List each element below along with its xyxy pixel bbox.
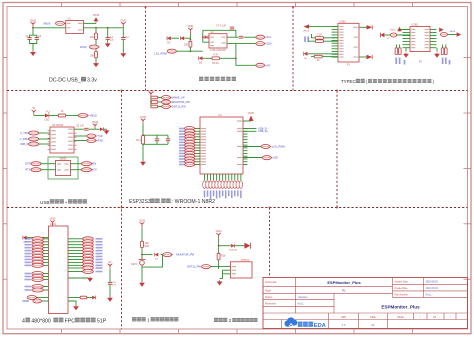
svg-text:VD33: VD33	[93, 14, 100, 17]
svg-text:EDA: EDA	[314, 323, 327, 329]
svg-text:ESP32S3: ESP32S3	[129, 199, 151, 205]
svg-text:Part Number: Part Number	[395, 293, 409, 296]
power flag right USB2	[439, 28, 443, 32]
lcd right pin group 1	[68, 237, 103, 268]
svg-text:P1: P1	[342, 289, 346, 293]
lcd right pin group 4	[68, 296, 96, 311]
svg-text:U_TXD: U_TXD	[20, 131, 29, 135]
wire pin stubs USB2	[403, 29, 437, 47]
svg-text:1745-VL53L0X: 1745-VL53L0X	[210, 49, 226, 52]
section label TYPEC	[341, 79, 435, 84]
node U_RXD	[20, 137, 50, 141]
resistor R1	[90, 28, 98, 40]
diode D8	[23, 236, 49, 244]
svg-text:DHT11_PW: DHT11_PW	[187, 265, 201, 269]
svg-text:51P: 51P	[97, 319, 107, 325]
svg-text:C7 0.1uF: C7 0.1uF	[216, 25, 226, 28]
svg-text:LCD1: LCD1	[50, 223, 57, 226]
svg-text:PAGE: PAGE	[397, 316, 404, 319]
wire VBUS out top	[359, 25, 372, 29]
svg-text:2022-08-15: 2022-08-15	[426, 280, 439, 283]
diode D7	[95, 127, 109, 134]
svg-text:RXD: RXD	[98, 138, 104, 142]
svg-text:U_RXD: U_RXD	[20, 137, 29, 141]
section label DC-DC	[49, 77, 97, 84]
svg-text:NULL: NULL	[426, 293, 433, 296]
section label ESP32	[129, 199, 215, 206]
lcd left pin group 2	[25, 272, 49, 282]
svg-text:VD33: VD33	[148, 90, 155, 93]
title block frame	[263, 278, 468, 329]
node LCD_PWM	[243, 144, 285, 148]
svg-text:5V: 5V	[109, 261, 112, 264]
svg-text:Page: Page	[265, 289, 271, 292]
svg-text:RTS: RTS	[25, 168, 30, 172]
svg-text:ESPMonitor_Plus: ESPMonitor_Plus	[381, 304, 420, 309]
esp32 left pin flags	[179, 127, 200, 167]
wire dht pins	[219, 267, 231, 279]
node LED	[243, 156, 278, 160]
section label dht	[214, 318, 258, 323]
resistor R6 CC1	[312, 33, 339, 39]
svg-text:VD33: VD33	[80, 45, 87, 49]
svg-text:VBUS: VBUS	[43, 22, 51, 26]
usb connector USB1	[338, 20, 359, 66]
wire SDA	[227, 43, 256, 45]
section divider vertical top row 2	[292, 6, 294, 90]
svg-text:Schematic: Schematic	[265, 281, 277, 284]
ground	[434, 48, 440, 58]
svg-text:VBUS: VBUS	[303, 31, 309, 33]
svg-text:EN: EN	[93, 162, 97, 166]
esp32 bottom pin labels	[204, 190, 242, 199]
resistor R9 R10 pulldowns left	[395, 45, 401, 55]
svg-text:SIZE: SIZE	[370, 316, 376, 319]
node USB_D	[20, 142, 50, 146]
resistor R13	[49, 110, 78, 117]
eda logo	[285, 317, 327, 328]
svg-text:DHT11_PW: DHT11_PW	[172, 104, 186, 108]
ground	[105, 42, 111, 47]
svg-text:: WROOM-1 N8R2: : WROOM-1 N8R2	[172, 199, 215, 205]
svg-text:2022-08-09: 2022-08-09	[426, 287, 439, 290]
resistor R7 CC2	[309, 40, 339, 43]
node RTS	[25, 168, 55, 172]
resistor R5	[203, 54, 220, 65]
node SDA	[256, 42, 272, 46]
backlight power column	[107, 261, 117, 302]
svg-text:5V: 5V	[32, 107, 35, 110]
node VD33 feedback	[80, 40, 100, 50]
resistor R8	[311, 55, 338, 62]
node U_TXD	[20, 131, 50, 135]
svg-text:ESPMonitor_Plus: ESPMonitor_Plus	[327, 280, 361, 285]
wire	[142, 124, 168, 136]
section divider vertical left column	[121, 90, 123, 330]
svg-text:10K: 10K	[184, 43, 189, 46]
svg-text:480*800: 480*800	[31, 319, 50, 325]
node VBUS right	[441, 31, 462, 37]
wire	[32, 27, 66, 29]
ground	[140, 161, 146, 166]
wire	[84, 22, 97, 24]
lcd right pin group 2	[68, 266, 103, 274]
svg-text:TYPEC: TYPEC	[341, 79, 356, 84]
power flag esp vcc right	[243, 112, 255, 121]
node vbus2 left	[384, 30, 410, 37]
svg-text:xuliaobee: xuliaobee	[298, 296, 309, 299]
resistor R15	[141, 241, 150, 248]
svg-text:USB: USB	[40, 200, 49, 205]
ground	[139, 282, 145, 287]
svg-text:VBUS: VBUS	[30, 19, 37, 22]
wire vcc filter	[74, 124, 95, 130]
svg-text:VD33: VD33	[248, 112, 255, 115]
power flag 5V led	[32, 107, 37, 115]
svg-text:C5 1uF: C5 1uF	[76, 124, 84, 127]
power flag LCD	[50, 218, 57, 226]
power flag dht	[216, 230, 223, 238]
svg-text:USB_D+: USB_D+	[258, 129, 269, 133]
wire INT	[219, 44, 256, 66]
node INT	[256, 63, 271, 67]
svg-text:1.0: 1.0	[342, 323, 346, 327]
svg-text:FPC: FPC	[65, 319, 76, 325]
svg-text:3.3v: 3.3v	[87, 78, 97, 84]
svg-text:INT: INT	[266, 63, 271, 67]
power up arrow USB2	[397, 27, 410, 31]
section divider vertical mid row right	[336, 90, 338, 209]
svg-text:VER: VER	[341, 316, 346, 319]
svg-text:LED: LED	[45, 119, 50, 122]
svg-text:DC-DC USB_5v: DC-DC USB_5v	[49, 78, 87, 84]
svg-text:USB1: USB1	[340, 20, 347, 23]
section label laser	[199, 77, 236, 81]
diode D4	[203, 35, 208, 39]
node SCL	[256, 35, 272, 39]
lcd left pin group 4	[23, 296, 49, 304]
lcd connector LCD1	[47, 223, 70, 314]
svg-text:+: +	[65, 200, 68, 205]
wire SCL	[227, 36, 256, 38]
svg-text:VD33: VD33	[50, 218, 57, 221]
power flag VBUS left	[303, 24, 309, 32]
net labels right USB2	[442, 58, 451, 65]
net labels left USB2	[395, 58, 405, 65]
diode D2	[167, 36, 171, 44]
ground	[30, 51, 36, 56]
svg-text:Drawn: Drawn	[265, 296, 273, 299]
wire pullup rail	[148, 90, 155, 106]
pullup row 1 node WAKE_UP	[151, 95, 185, 99]
power flag VBUS input	[30, 19, 37, 27]
svg-text:VD33: VD33	[120, 19, 127, 22]
power flag left USB2	[381, 33, 390, 40]
svg-text:SCL: SCL	[266, 35, 272, 39]
node VBUS	[78, 113, 97, 117]
svg-text:1K: 1K	[61, 110, 64, 113]
svg-text:LED: LED	[273, 156, 278, 160]
diode D9	[155, 253, 159, 261]
svg-text:5.1K: 5.1K	[317, 33, 322, 36]
node USB_D-	[243, 126, 268, 130]
capacitor C1	[25, 28, 33, 44]
wire	[84, 27, 124, 30]
svg-text:MONITOR_PW: MONITOR_PW	[176, 253, 194, 257]
esp32 module U4	[198, 114, 248, 176]
svg-text:1uF: 1uF	[112, 285, 116, 287]
ground	[120, 52, 126, 57]
node MONITOR_PW	[163, 253, 195, 257]
dht11 sensor U5	[228, 259, 252, 278]
section divider vertical bottom row	[269, 207, 271, 278]
wire	[141, 228, 143, 241]
capacitor C7 label	[216, 25, 234, 29]
svg-text:MONITOR_PW: MONITOR_PW	[172, 100, 190, 104]
wire	[309, 26, 338, 28]
section divider vertical top row 1	[145, 6, 147, 90]
svg-text:1N4148: 1N4148	[229, 249, 237, 251]
svg-text:VBUS: VBUS	[449, 31, 455, 33]
node CC labels	[304, 37, 309, 43]
capacitor C9	[155, 135, 159, 144]
wire key loop	[142, 255, 163, 268]
svg-text:USB2: USB2	[412, 24, 419, 27]
svg-text:TXD: TXD	[98, 134, 103, 138]
node VBUS	[43, 21, 66, 25]
capacitor C2	[33, 35, 42, 51]
resistor R4	[184, 41, 192, 52]
node LD1_PWM	[154, 49, 203, 55]
wire	[218, 239, 220, 254]
power flag laser VD33	[187, 25, 194, 33]
svg-text:Update Date: Update Date	[395, 280, 409, 283]
svg-text:4: 4	[22, 319, 25, 325]
svg-text:S8050: S8050	[60, 158, 68, 161]
power flag U3	[92, 121, 99, 129]
wire pin stubs USB1	[332, 27, 339, 57]
section label FPC	[22, 318, 107, 325]
wire	[190, 34, 192, 41]
svg-text:KEY1: KEY1	[131, 263, 138, 266]
node IO0	[71, 168, 98, 172]
power flag VD33 esp	[140, 116, 147, 124]
title block fields	[265, 280, 451, 327]
ground	[93, 58, 99, 67]
capacitor C3	[106, 28, 115, 42]
node USB_D+	[243, 129, 269, 133]
capacitor C4	[121, 28, 129, 52]
power flag key	[139, 220, 146, 228]
svg-text:A3: A3	[371, 323, 375, 327]
pullup row 3 node DHT11	[151, 104, 186, 108]
svg-text:VD33: VD33	[140, 116, 147, 119]
svg-text:VBUS: VBUS	[390, 30, 396, 32]
push button KEY1	[131, 258, 145, 282]
svg-text:OF: OF	[433, 316, 437, 319]
resistor R2	[90, 49, 98, 58]
node EN	[71, 162, 97, 166]
svg-text:10K: 10K	[90, 36, 95, 39]
laser module U2	[209, 31, 227, 52]
power flag VD33	[120, 19, 127, 27]
svg-text:IO0: IO0	[93, 168, 98, 172]
svg-text:R16: R16	[221, 254, 226, 257]
svg-text:R5 1K: R5 1K	[212, 62, 219, 65]
resistor R11 R12 pulldowns right	[441, 45, 447, 55]
wire	[141, 248, 143, 260]
wire laser loop	[202, 30, 236, 42]
diode D11	[244, 243, 250, 249]
svg-text:Create Date: Create Date	[395, 287, 409, 290]
diode D6	[304, 52, 338, 60]
diode D10	[219, 244, 245, 251]
svg-text:R14: R14	[136, 139, 141, 142]
esp32 bottom pins	[203, 174, 243, 188]
svg-text:10K: 10K	[90, 54, 95, 57]
lcd left pin group 3	[25, 285, 49, 293]
svg-text:VBUS: VBUS	[90, 113, 98, 117]
wire GND out bottom	[359, 55, 372, 59]
pullup row 2 node MONITOR	[151, 100, 190, 104]
regulator U1	[66, 18, 84, 34]
section label USB serial	[40, 199, 87, 205]
transistor pair auto-download	[48, 157, 78, 179]
svg-text:LCD_PWM: LCD_PWM	[272, 144, 285, 148]
svg-text:DHT11: DHT11	[241, 259, 249, 262]
section label key	[132, 317, 178, 323]
svg-text:USB_D: USB_D	[20, 142, 29, 146]
power flag VD33 output	[93, 14, 100, 23]
usb connector USB2	[410, 24, 430, 64]
node TXD	[74, 134, 103, 138]
svg-text:4.7K: 4.7K	[213, 54, 218, 57]
lcd left pin group 1	[25, 237, 49, 268]
resistor R14	[136, 136, 144, 161]
ground	[403, 48, 409, 58]
svg-text:SDA: SDA	[266, 42, 272, 46]
section divider horizontal upper	[7, 90, 468, 92]
diode D3	[171, 36, 190, 40]
svg-text:VD33: VD33	[92, 121, 99, 124]
diode D5	[199, 56, 203, 64]
svg-text:LD1_PWM: LD1_PWM	[154, 52, 167, 56]
svg-text:Reviewed: Reviewed	[265, 303, 277, 306]
capacitor C10	[143, 135, 170, 144]
svg-text:DTR: DTR	[25, 162, 30, 166]
svg-text:VD33: VD33	[216, 230, 223, 233]
node RXD	[74, 138, 103, 142]
led LED1	[34, 111, 50, 122]
node DTR	[25, 162, 55, 166]
section divider horizontal lower	[7, 207, 468, 209]
svg-text:U3 CH343: U3 CH343	[52, 124, 64, 127]
usb serial chip U3	[48, 124, 77, 153]
ground lcd right	[68, 277, 93, 282]
svg-text:WAKE_UP: WAKE_UP	[172, 95, 185, 99]
svg-text:1K: 1K	[317, 59, 320, 62]
svg-text:NULL: NULL	[298, 303, 305, 306]
resistor R16	[217, 253, 226, 267]
svg-text:VD33: VD33	[187, 25, 194, 28]
svg-text:R15: R15	[145, 245, 150, 248]
node DHT11_PW	[187, 265, 230, 269]
svg-text:VD33: VD33	[139, 220, 146, 223]
svg-text:22u: 22u	[110, 39, 115, 42]
ground	[217, 279, 223, 286]
